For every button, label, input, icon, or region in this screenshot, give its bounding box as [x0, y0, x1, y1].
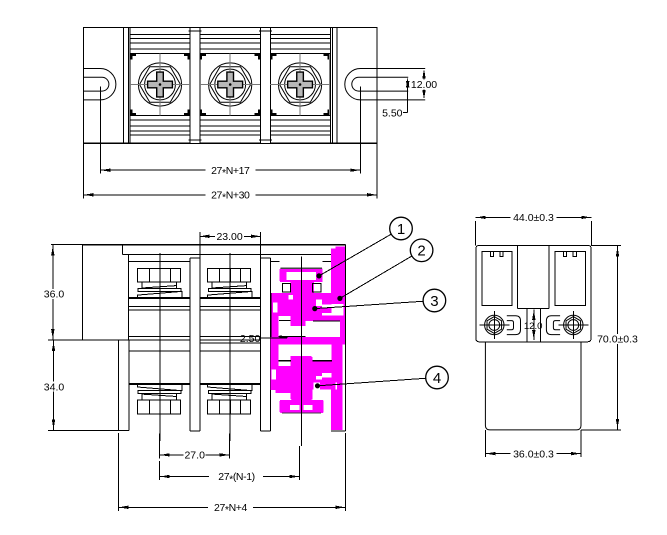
svg-text:3: 3: [430, 293, 438, 310]
svg-text:36.0: 36.0: [44, 289, 65, 301]
front view: top shelf line: [123, 253, 332, 255]
front view: left end step profile: [122, 245, 124, 255]
magenta section: left strip lower: [271, 337, 279, 390]
svg-text:27*N+17: 27*N+17: [211, 165, 250, 179]
front view: body outline upper: [83, 244, 346, 246]
top view: screw 3 head outer circle: [278, 63, 321, 106]
callout balloon 1: [319, 234, 391, 276]
top view: screw 2 inner circle: [215, 69, 246, 100]
top view: screw 1 inner circle: [145, 69, 176, 100]
top view: separator barrier 2: [261, 27, 271, 143]
svg-text:5.50: 5.50: [382, 107, 403, 119]
callout balloon 3: [315, 301, 423, 308]
magenta section: right end wall bar lower: [331, 341, 342, 430]
magenta section: band 2: [271, 337, 346, 345]
svg-text:27*(N-1): 27*(N-1): [218, 471, 255, 485]
front view: station 2 lower screw assembly: [208, 385, 253, 391]
magenta section: side lip: [276, 389, 291, 393]
front view: bottom edge / 34.0 extension: [48, 430, 129, 432]
front view: separation wall 1: [190, 255, 200, 431]
magenta section: right end wall bar upper: [331, 247, 345, 342]
side view: left wire window: [482, 252, 512, 306]
side view: right bracket: [546, 316, 560, 335]
magenta section: band 3: [271, 380, 342, 390]
dimension 12.00: [423, 71, 425, 98]
top view: screw 3 crosshair: [270, 84, 330, 86]
top view: main rail body outline: [124, 27, 337, 143]
front view: station 1 upper screw assembly: [137, 291, 182, 297]
svg-text:4: 4: [433, 370, 441, 387]
top view: screw 3 phillips cross: [288, 72, 313, 97]
front view: station 1 lower screw assembly: [137, 385, 182, 391]
front view: station 3 cell lines: [270, 260, 279, 262]
magenta section: mid block right: [313, 300, 332, 321]
dimension 2.50 leader: [261, 337, 287, 339]
top view: left inner double line: [127, 27, 129, 143]
magenta section: bar window: [331, 304, 343, 315]
magenta section: lower cap: [280, 400, 324, 413]
front view: station 2 cell lines: [200, 296, 261, 298]
dimension 5.50: [407, 80, 409, 90]
dimension 12.0: [533, 310, 535, 341]
svg-text:27*N+4: 27*N+4: [214, 502, 247, 516]
top view: separator barrier 1: [190, 27, 200, 143]
magenta section: shoulder lines: [278, 360, 291, 362]
dimension 44.0±0.3: [475, 221, 477, 245]
front view: station 1 centerline: [159, 253, 161, 441]
front view: right end foot: [331, 430, 345, 432]
front view: station 2 upper screw assembly: [208, 291, 253, 297]
front view: station 2 centerline: [229, 253, 231, 441]
top view: screw 3 hexagon: [280, 67, 321, 103]
top view: right ear slot inner: [352, 77, 408, 91]
magenta section: chamber white upper: [306, 321, 341, 337]
top view: screw 1 head outer circle: [138, 63, 181, 106]
svg-text:23.00: 23.00: [216, 231, 242, 243]
dimension 70.0±0.3: [591, 244, 621, 246]
svg-text:34.0: 34.0: [44, 382, 65, 394]
front view: top shelf line over walls: [123, 253, 332, 255]
top view: horizontal rail lines: [130, 33, 331, 35]
svg-text:36.0±0.3: 36.0±0.3: [513, 448, 554, 460]
svg-text:27.0: 27.0: [184, 450, 205, 462]
front view: station 1 cell lines: [129, 296, 190, 298]
magenta section: ledge line: [279, 320, 291, 322]
side view: left bracket: [507, 316, 521, 335]
side view: center slot: [526, 309, 528, 342]
callout balloon 4: [318, 378, 426, 386]
side view: upper housing outline: [476, 245, 591, 341]
magenta section: upper column: [291, 282, 315, 321]
side view: left hex mounting insert: [485, 315, 504, 334]
top view: left ear slot outer: [84, 69, 116, 100]
side view: right hex mounting insert: [564, 315, 583, 334]
magenta section: washer outlines beside neck: [282, 284, 290, 292]
top view: screw 2 head outer circle: [209, 63, 252, 106]
top view: right ear slot outer: [345, 69, 425, 100]
dimension 34.0: [53, 340, 55, 431]
side view: center column: [517, 245, 519, 308]
top view: screw 1 phillips cross: [148, 72, 173, 97]
dimension 36.0: [51, 244, 83, 246]
svg-text:2: 2: [417, 243, 425, 260]
svg-text:27*N+30: 27*N+30: [211, 190, 250, 204]
dimension 27*N+30: [83, 144, 85, 199]
top view: screw 2 hexagon: [210, 67, 251, 103]
side view: lower housing outline: [485, 342, 581, 430]
magenta section: lower hat column: [291, 356, 313, 400]
top view: left ear slot inner: [84, 77, 109, 91]
svg-text:12.0: 12.0: [524, 321, 543, 332]
magenta section: chamber white lower: [306, 345, 332, 361]
front view: station 3 centerline: [300, 257, 302, 447]
magenta section: under-cap line: [282, 412, 321, 414]
top view: screw 1 crosshair: [130, 84, 190, 86]
top view: right mounting ear: [337, 27, 377, 143]
top view: terminal cell 3 square: [270, 53, 330, 115]
svg-text:2.50: 2.50: [240, 333, 261, 345]
svg-text:44.0±0.3: 44.0±0.3: [513, 212, 554, 224]
side view: right wire window: [555, 252, 585, 306]
top view: screw 2 crosshair: [200, 84, 260, 86]
svg-text:1: 1: [397, 221, 405, 238]
magenta section: mid block left: [277, 302, 290, 316]
dimension 27*N+4: [117, 433, 119, 511]
svg-text:12.00: 12.00: [411, 79, 437, 91]
callout balloon 2: [340, 256, 412, 298]
top view: terminal cell 1 square: [130, 53, 190, 115]
svg-text:70.0±0.3: 70.0±0.3: [597, 334, 638, 346]
magenta section: mid block left lower: [277, 366, 290, 380]
dimension 27*N+17: [99, 87, 101, 174]
dimension 23.00: [199, 232, 201, 257]
front view: separation wall 2: [261, 255, 271, 431]
dimension 27*(N-1): [159, 461, 161, 480]
magenta section: left strip upper: [271, 293, 278, 345]
top view: left mounting ear: [84, 27, 124, 143]
front view: mid split line: [48, 339, 346, 341]
front view: lower-left wall: [117, 340, 119, 430]
top view: terminal cell 2 square: [200, 53, 261, 115]
magenta section: upper cap: [280, 268, 323, 282]
dimension 36.0±0.3: [484, 430, 486, 457]
magenta section: mid block right lower: [313, 361, 332, 382]
top view: screw 2 phillips cross: [218, 72, 243, 97]
magenta section: upper arm band: [271, 293, 345, 303]
top view: screw 1 hexagon: [140, 67, 181, 103]
top view: screw 3 inner circle: [285, 69, 316, 100]
dimension 27.0: [159, 434, 161, 459]
top view: right inner double line: [330, 27, 332, 143]
